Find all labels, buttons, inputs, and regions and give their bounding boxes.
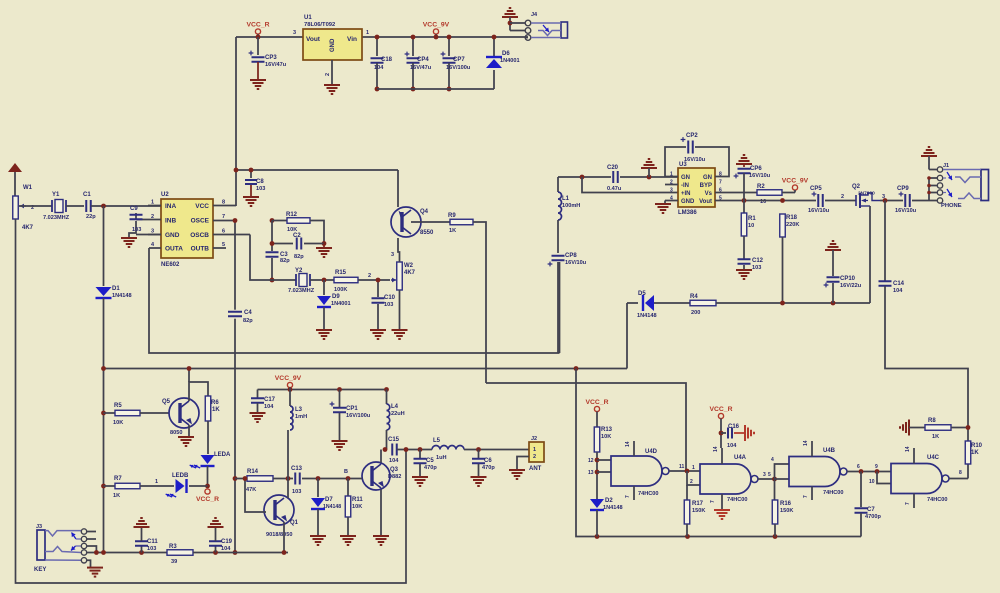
svg-text:16V/47u: 16V/47u (265, 62, 287, 68)
svg-text:OSCE: OSCE (191, 218, 210, 225)
svg-text:11: 11 (679, 464, 685, 470)
svg-text:D9: D9 (332, 294, 340, 300)
svg-text:R5: R5 (114, 403, 122, 409)
svg-text:R15: R15 (335, 270, 347, 276)
svg-text:J3: J3 (36, 524, 42, 530)
svg-text:74HC00: 74HC00 (638, 491, 659, 497)
svg-text:1N4001: 1N4001 (500, 58, 520, 64)
svg-text:103: 103 (132, 227, 141, 233)
svg-text:6: 6 (222, 229, 225, 235)
svg-text:GN: GN (703, 175, 712, 181)
svg-text:8050: 8050 (170, 430, 182, 436)
svg-text:14: 14 (713, 446, 719, 452)
svg-text:7.023MHZ: 7.023MHZ (288, 288, 315, 294)
svg-text:1: 1 (692, 465, 695, 471)
svg-text:R14: R14 (247, 469, 259, 475)
svg-text:14: 14 (625, 441, 631, 447)
svg-text:LEDB: LEDB (172, 473, 189, 479)
svg-text:R1: R1 (748, 216, 756, 222)
svg-text:CP4: CP4 (417, 57, 429, 63)
svg-text:47K: 47K (246, 487, 256, 493)
svg-text:150K: 150K (780, 508, 793, 514)
svg-text:7: 7 (222, 214, 225, 220)
svg-text:GND: GND (165, 232, 180, 239)
svg-text:10K: 10K (113, 420, 123, 426)
svg-text:VCC_9V: VCC_9V (275, 375, 302, 382)
svg-text:0.47u: 0.47u (607, 186, 622, 192)
svg-text:3: 3 (151, 229, 154, 235)
svg-text:C17: C17 (264, 397, 276, 403)
svg-text:L1: L1 (562, 196, 570, 202)
svg-text:R18: R18 (786, 215, 798, 221)
svg-text:10: 10 (869, 479, 875, 485)
svg-text:CP5: CP5 (810, 186, 822, 192)
svg-text:16V/10u: 16V/10u (749, 173, 771, 179)
svg-text:U4D: U4D (645, 449, 658, 455)
svg-text:2: 2 (533, 454, 536, 460)
svg-text:Q4: Q4 (420, 209, 429, 215)
svg-text:16V/22u: 16V/22u (840, 283, 862, 289)
svg-text:7.023MHZ: 7.023MHZ (43, 215, 70, 221)
svg-text:C6: C6 (484, 458, 492, 464)
svg-text:74HC00: 74HC00 (823, 490, 844, 496)
svg-text:Q1: Q1 (290, 520, 299, 526)
svg-text:9: 9 (875, 464, 878, 470)
svg-text:CP2: CP2 (686, 133, 698, 139)
svg-text:1K: 1K (932, 434, 939, 440)
svg-text:VCC_R: VCC_R (196, 496, 219, 503)
svg-text:C12: C12 (752, 258, 764, 264)
svg-text:16V/10u: 16V/10u (565, 260, 587, 266)
svg-text:7: 7 (803, 495, 809, 498)
svg-text:3: 3 (670, 188, 673, 194)
svg-text:12: 12 (588, 458, 594, 464)
svg-text:C11: C11 (147, 539, 158, 545)
svg-text:220K: 220K (786, 222, 799, 228)
svg-text:R17: R17 (692, 501, 704, 507)
svg-text:GND: GND (330, 38, 336, 52)
svg-text:10: 10 (748, 223, 754, 229)
svg-text:1N4148: 1N4148 (112, 293, 132, 299)
svg-text:D5: D5 (638, 291, 646, 297)
svg-text:VCC_9V: VCC_9V (782, 178, 809, 185)
svg-text:C15: C15 (388, 437, 400, 443)
svg-text:39: 39 (171, 559, 177, 565)
svg-text:Vin: Vin (347, 36, 357, 43)
svg-text:1K: 1K (971, 450, 979, 456)
svg-text:D7: D7 (325, 497, 333, 503)
svg-text:Y1: Y1 (52, 192, 60, 198)
svg-text:10K: 10K (601, 434, 611, 440)
svg-text:INB: INB (165, 218, 177, 225)
svg-text:16V/100u: 16V/100u (346, 413, 371, 419)
svg-text:150K: 150K (692, 508, 705, 514)
svg-text:VCC_R: VCC_R (246, 22, 269, 29)
svg-text:VCC_9V: VCC_9V (423, 22, 450, 29)
svg-text:78L06/T092: 78L06/T092 (304, 22, 335, 28)
svg-text:2: 2 (325, 73, 331, 76)
svg-text:1: 1 (533, 447, 536, 453)
svg-text:3: 3 (763, 472, 766, 478)
svg-text:BYP: BYP (700, 183, 712, 189)
svg-text:1mH: 1mH (295, 414, 307, 420)
svg-text:U4C: U4C (927, 455, 940, 461)
svg-text:2: 2 (368, 273, 371, 279)
svg-text:W2: W2 (404, 263, 414, 269)
svg-text:C16: C16 (728, 424, 740, 430)
svg-text:1: 1 (151, 200, 154, 206)
svg-text:16V/10u: 16V/10u (684, 157, 706, 163)
svg-text:4700p: 4700p (865, 514, 881, 520)
svg-text:1uH: 1uH (436, 455, 447, 461)
svg-text:2: 2 (841, 194, 844, 200)
svg-text:U1: U1 (304, 15, 312, 21)
svg-text:J2: J2 (531, 436, 537, 442)
svg-text:10K: 10K (352, 504, 362, 510)
svg-text:Q5: Q5 (162, 399, 171, 405)
svg-text:R3: R3 (169, 544, 177, 550)
svg-text:1N4148: 1N4148 (603, 505, 623, 511)
svg-text:R16: R16 (780, 501, 792, 507)
svg-text:82p: 82p (243, 318, 253, 324)
svg-text:16V/10u: 16V/10u (895, 208, 917, 214)
svg-text:5: 5 (768, 472, 771, 478)
svg-text:GN: GN (681, 175, 690, 181)
svg-text:CP8: CP8 (565, 253, 577, 259)
svg-text:LM386: LM386 (678, 210, 697, 216)
svg-text:7: 7 (719, 180, 722, 186)
svg-text:4K7: 4K7 (404, 270, 416, 276)
svg-text:1N4148: 1N4148 (323, 504, 341, 510)
svg-text:R11: R11 (352, 497, 363, 503)
svg-text:PHONE: PHONE (941, 203, 962, 209)
svg-text:7: 7 (905, 502, 911, 505)
svg-text:1K: 1K (449, 228, 456, 234)
svg-text:104: 104 (221, 546, 231, 552)
svg-text:C8: C8 (256, 179, 264, 185)
svg-text:OUTA: OUTA (165, 246, 183, 253)
svg-text:103: 103 (256, 186, 265, 192)
svg-text:CP10: CP10 (840, 276, 856, 282)
svg-text:VCC: VCC (195, 203, 209, 210)
svg-text:VCC_R: VCC_R (709, 406, 732, 413)
svg-text:104: 104 (893, 288, 903, 294)
svg-text:100K: 100K (334, 287, 347, 293)
svg-text:22uH: 22uH (391, 411, 405, 417)
svg-text:1N4148: 1N4148 (637, 313, 657, 319)
svg-text:Y2: Y2 (295, 268, 303, 274)
svg-text:9018/8050: 9018/8050 (266, 532, 292, 538)
svg-text:KEY: KEY (34, 567, 46, 573)
svg-text:R6: R6 (211, 400, 219, 406)
svg-text:100mH: 100mH (562, 203, 580, 209)
svg-text:104: 104 (727, 443, 737, 449)
svg-text:16V/100u: 16V/100u (446, 65, 471, 71)
svg-text:C2: C2 (293, 233, 301, 239)
svg-text:4: 4 (771, 457, 774, 463)
svg-text:8: 8 (222, 200, 225, 206)
svg-text:U4A: U4A (734, 455, 747, 461)
svg-text:1N4001: 1N4001 (331, 301, 351, 307)
svg-text:103: 103 (752, 265, 761, 271)
svg-text:Q2: Q2 (852, 184, 861, 190)
svg-text:D1: D1 (112, 286, 120, 292)
svg-text:+IN: +IN (681, 191, 691, 197)
svg-text:C5: C5 (426, 458, 434, 464)
svg-text:82p: 82p (280, 258, 290, 264)
svg-text:7: 7 (625, 495, 631, 498)
svg-text:22p: 22p (86, 214, 96, 220)
svg-text:CP6: CP6 (750, 166, 762, 172)
svg-text:D6: D6 (502, 51, 510, 57)
svg-text:J1: J1 (943, 163, 949, 169)
svg-text:VCC_R: VCC_R (585, 399, 608, 406)
svg-text:1K: 1K (212, 407, 220, 413)
svg-text:-IN: -IN (681, 183, 689, 189)
svg-text:OUTB: OUTB (191, 246, 210, 253)
svg-text:C14: C14 (893, 281, 905, 287)
svg-text:U4B: U4B (823, 448, 836, 454)
svg-text:L4: L4 (391, 404, 399, 410)
svg-text:6: 6 (857, 464, 860, 470)
svg-text:C7: C7 (867, 507, 875, 513)
svg-text:1K: 1K (113, 493, 120, 499)
svg-text:103: 103 (292, 489, 301, 495)
svg-text:Vout: Vout (699, 199, 712, 205)
svg-text:82p: 82p (294, 254, 304, 260)
svg-text:4K7: 4K7 (22, 225, 34, 231)
svg-text:Vs: Vs (705, 191, 713, 197)
svg-text:2N7000: 2N7000 (858, 191, 875, 197)
svg-text:L5: L5 (433, 438, 441, 444)
svg-text:C1: C1 (83, 192, 91, 198)
svg-text:R2: R2 (757, 184, 765, 190)
svg-text:R9: R9 (448, 213, 456, 219)
svg-text:CP3: CP3 (265, 55, 277, 61)
svg-text:GND: GND (681, 199, 695, 205)
svg-text:C18: C18 (381, 57, 393, 63)
svg-text:J4: J4 (531, 12, 538, 18)
svg-text:1: 1 (155, 479, 158, 485)
svg-text:1: 1 (366, 30, 369, 36)
svg-text:OSCB: OSCB (190, 232, 209, 239)
svg-text:B: B (344, 469, 348, 475)
svg-text:470p: 470p (482, 465, 495, 471)
svg-text:104: 104 (374, 65, 384, 71)
svg-text:D882: D882 (388, 474, 401, 480)
svg-text:74HC00: 74HC00 (927, 497, 948, 503)
svg-text:Q3: Q3 (390, 467, 399, 473)
svg-text:14: 14 (803, 440, 809, 446)
svg-text:Vout: Vout (306, 36, 321, 43)
svg-text:NE602: NE602 (161, 262, 180, 268)
svg-text:3: 3 (391, 252, 394, 258)
svg-text:C4: C4 (244, 310, 252, 316)
svg-text:U2: U2 (161, 192, 169, 198)
svg-text:103: 103 (147, 546, 156, 552)
svg-text:C20: C20 (607, 165, 619, 171)
svg-text:R10: R10 (971, 443, 983, 449)
svg-text:5: 5 (222, 242, 225, 248)
svg-text:16V/10u: 16V/10u (808, 208, 830, 214)
svg-text:13: 13 (588, 470, 594, 476)
svg-text:8550: 8550 (420, 230, 434, 236)
svg-text:R7: R7 (114, 476, 122, 482)
svg-text:ANT: ANT (529, 466, 542, 472)
svg-text:14: 14 (905, 446, 911, 452)
svg-text:2: 2 (690, 479, 693, 485)
svg-text:103: 103 (384, 302, 393, 308)
svg-text:3: 3 (293, 30, 296, 36)
svg-text:74HC00: 74HC00 (727, 497, 748, 503)
svg-text:200: 200 (691, 310, 700, 316)
svg-text:C10: C10 (384, 295, 396, 301)
svg-text:7: 7 (710, 500, 716, 503)
svg-text:R4: R4 (690, 294, 698, 300)
svg-text:CP1: CP1 (346, 406, 358, 412)
svg-text:R12: R12 (286, 212, 298, 218)
svg-text:104: 104 (389, 458, 399, 464)
svg-text:R13: R13 (601, 427, 613, 433)
svg-text:8: 8 (959, 470, 962, 476)
svg-text:CP9: CP9 (897, 186, 909, 192)
svg-text:CP7: CP7 (453, 57, 465, 63)
svg-text:R8: R8 (928, 418, 936, 424)
svg-text:C13: C13 (291, 466, 303, 472)
svg-text:W1: W1 (23, 185, 33, 191)
svg-text:LEDA: LEDA (214, 452, 231, 458)
svg-text:INA: INA (165, 203, 177, 210)
svg-text:C9: C9 (130, 206, 138, 212)
svg-text:16V/47u: 16V/47u (410, 65, 432, 71)
svg-text:470p: 470p (424, 465, 437, 471)
svg-text:L3: L3 (295, 407, 303, 413)
svg-text:C19: C19 (221, 539, 233, 545)
svg-text:D2: D2 (605, 498, 613, 504)
svg-text:104: 104 (264, 404, 274, 410)
